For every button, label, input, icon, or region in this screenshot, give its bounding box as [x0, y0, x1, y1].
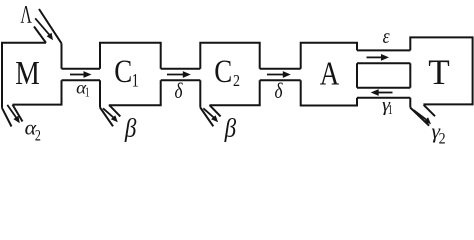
arrowhead C1 to C2: [183, 71, 191, 78]
arrow T to A (gamma1): [377, 92, 393, 94]
svg-text:β: β: [124, 114, 136, 143]
arrowhead beta2: [211, 115, 218, 122]
svg-text:1: 1: [388, 102, 393, 117]
arrowhead Lambda: [47, 33, 53, 41]
outflow pipe beta2: [200, 105, 220, 126]
svg-text:C: C: [214, 54, 232, 90]
svg-text:2: 2: [233, 71, 240, 90]
svg-text:M: M: [15, 55, 40, 92]
arrowhead M to C1: [84, 71, 92, 78]
arrow C1 to C2: [167, 74, 185, 76]
box C2: [200, 43, 259, 108]
svg-text:δ: δ: [175, 78, 184, 103]
channel C1-C2: [161, 69, 201, 81]
svg-text:T: T: [428, 52, 450, 92]
arrowhead A to T: [381, 54, 389, 61]
svg-text:2: 2: [439, 130, 446, 147]
channel C2-A: [260, 69, 301, 81]
box C1: [100, 43, 161, 108]
arrow A to T (epsilon): [367, 56, 383, 58]
channel M-C1: [62, 69, 101, 81]
svg-text:1: 1: [85, 84, 90, 99]
arrowhead gamma2: [424, 117, 431, 124]
svg-text:2: 2: [35, 128, 41, 145]
arrowhead T to A: [371, 89, 379, 96]
channel A-T upper: [357, 50, 410, 63]
box M: [2, 43, 62, 108]
outflow pipe alpha2: [2, 105, 23, 127]
box T: [410, 37, 472, 107]
arrowhead alpha2: [13, 116, 19, 124]
svg-text:ε: ε: [383, 24, 391, 48]
arrow alpha2 shaft: [7, 105, 16, 118]
outflow pipe beta1: [100, 105, 120, 126]
arrow C2 to A: [267, 74, 285, 76]
arrowhead beta1: [111, 115, 118, 122]
arrow beta2 shaft: [203, 108, 214, 117]
svg-text:A: A: [320, 55, 340, 92]
svg-text:1: 1: [132, 70, 139, 91]
svg-text:C: C: [114, 54, 132, 90]
svg-text:β: β: [224, 114, 236, 143]
arrow Lambda shaft: [35, 18, 49, 35]
arrow gamma2 shaft: [413, 110, 426, 120]
channel A-T lower: [357, 88, 410, 98]
svg-text:δ: δ: [275, 78, 284, 103]
box A: [301, 43, 357, 106]
svg-text:Λ: Λ: [20, 1, 32, 28]
arrowhead C2 to A: [283, 71, 291, 78]
inflow pipe Lambda: [34, 9, 62, 43]
arrow beta1 shaft: [103, 108, 114, 117]
arrow M to C1: [70, 74, 85, 76]
outflow pipe gamma2: [410, 105, 435, 126]
